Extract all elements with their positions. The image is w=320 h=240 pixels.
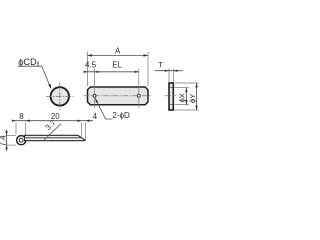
circle body [51,87,69,105]
svg-text:ϕX: ϕX [177,93,186,102]
label phi CD leader [18,57,52,89]
washer side view bar [165,83,177,110]
svg-text:20: 20 [51,112,60,121]
label 3.7 leader [43,118,61,141]
cotter pin eye [17,136,26,145]
svg-text:7.4: 7.4 [0,135,7,147]
cotter pin prongs [25,135,86,140]
dimension T [155,60,183,82]
dimension 4.5 and EL [84,61,139,73]
dimension 7.4 [0,129,16,151]
pin body rect [88,87,149,105]
hole right [138,69,140,109]
node centerlines of circle [46,95,73,97]
dimension A [88,46,149,86]
cotter pin top dimensions 8 20 4 [12,112,98,140]
main side view rectangle (pin body) [84,69,152,109]
svg-text:2-ϕD: 2-ϕD [112,111,130,120]
svg-text:4: 4 [93,112,98,121]
svg-text:A: A [115,46,121,55]
dimension phiX [175,88,189,105]
centerline horizontal [84,95,152,97]
dimension phiY [175,83,199,110]
svg-text:4.5: 4.5 [85,61,97,70]
label 2-phiD leader [95,98,130,120]
svg-text:EL: EL [112,61,122,70]
svg-text:ϕY: ϕY [188,94,197,103]
hole left [94,69,96,109]
end view circle (pin diameter) [46,83,73,111]
svg-text:8: 8 [19,112,24,121]
svg-text:T: T [158,60,163,69]
